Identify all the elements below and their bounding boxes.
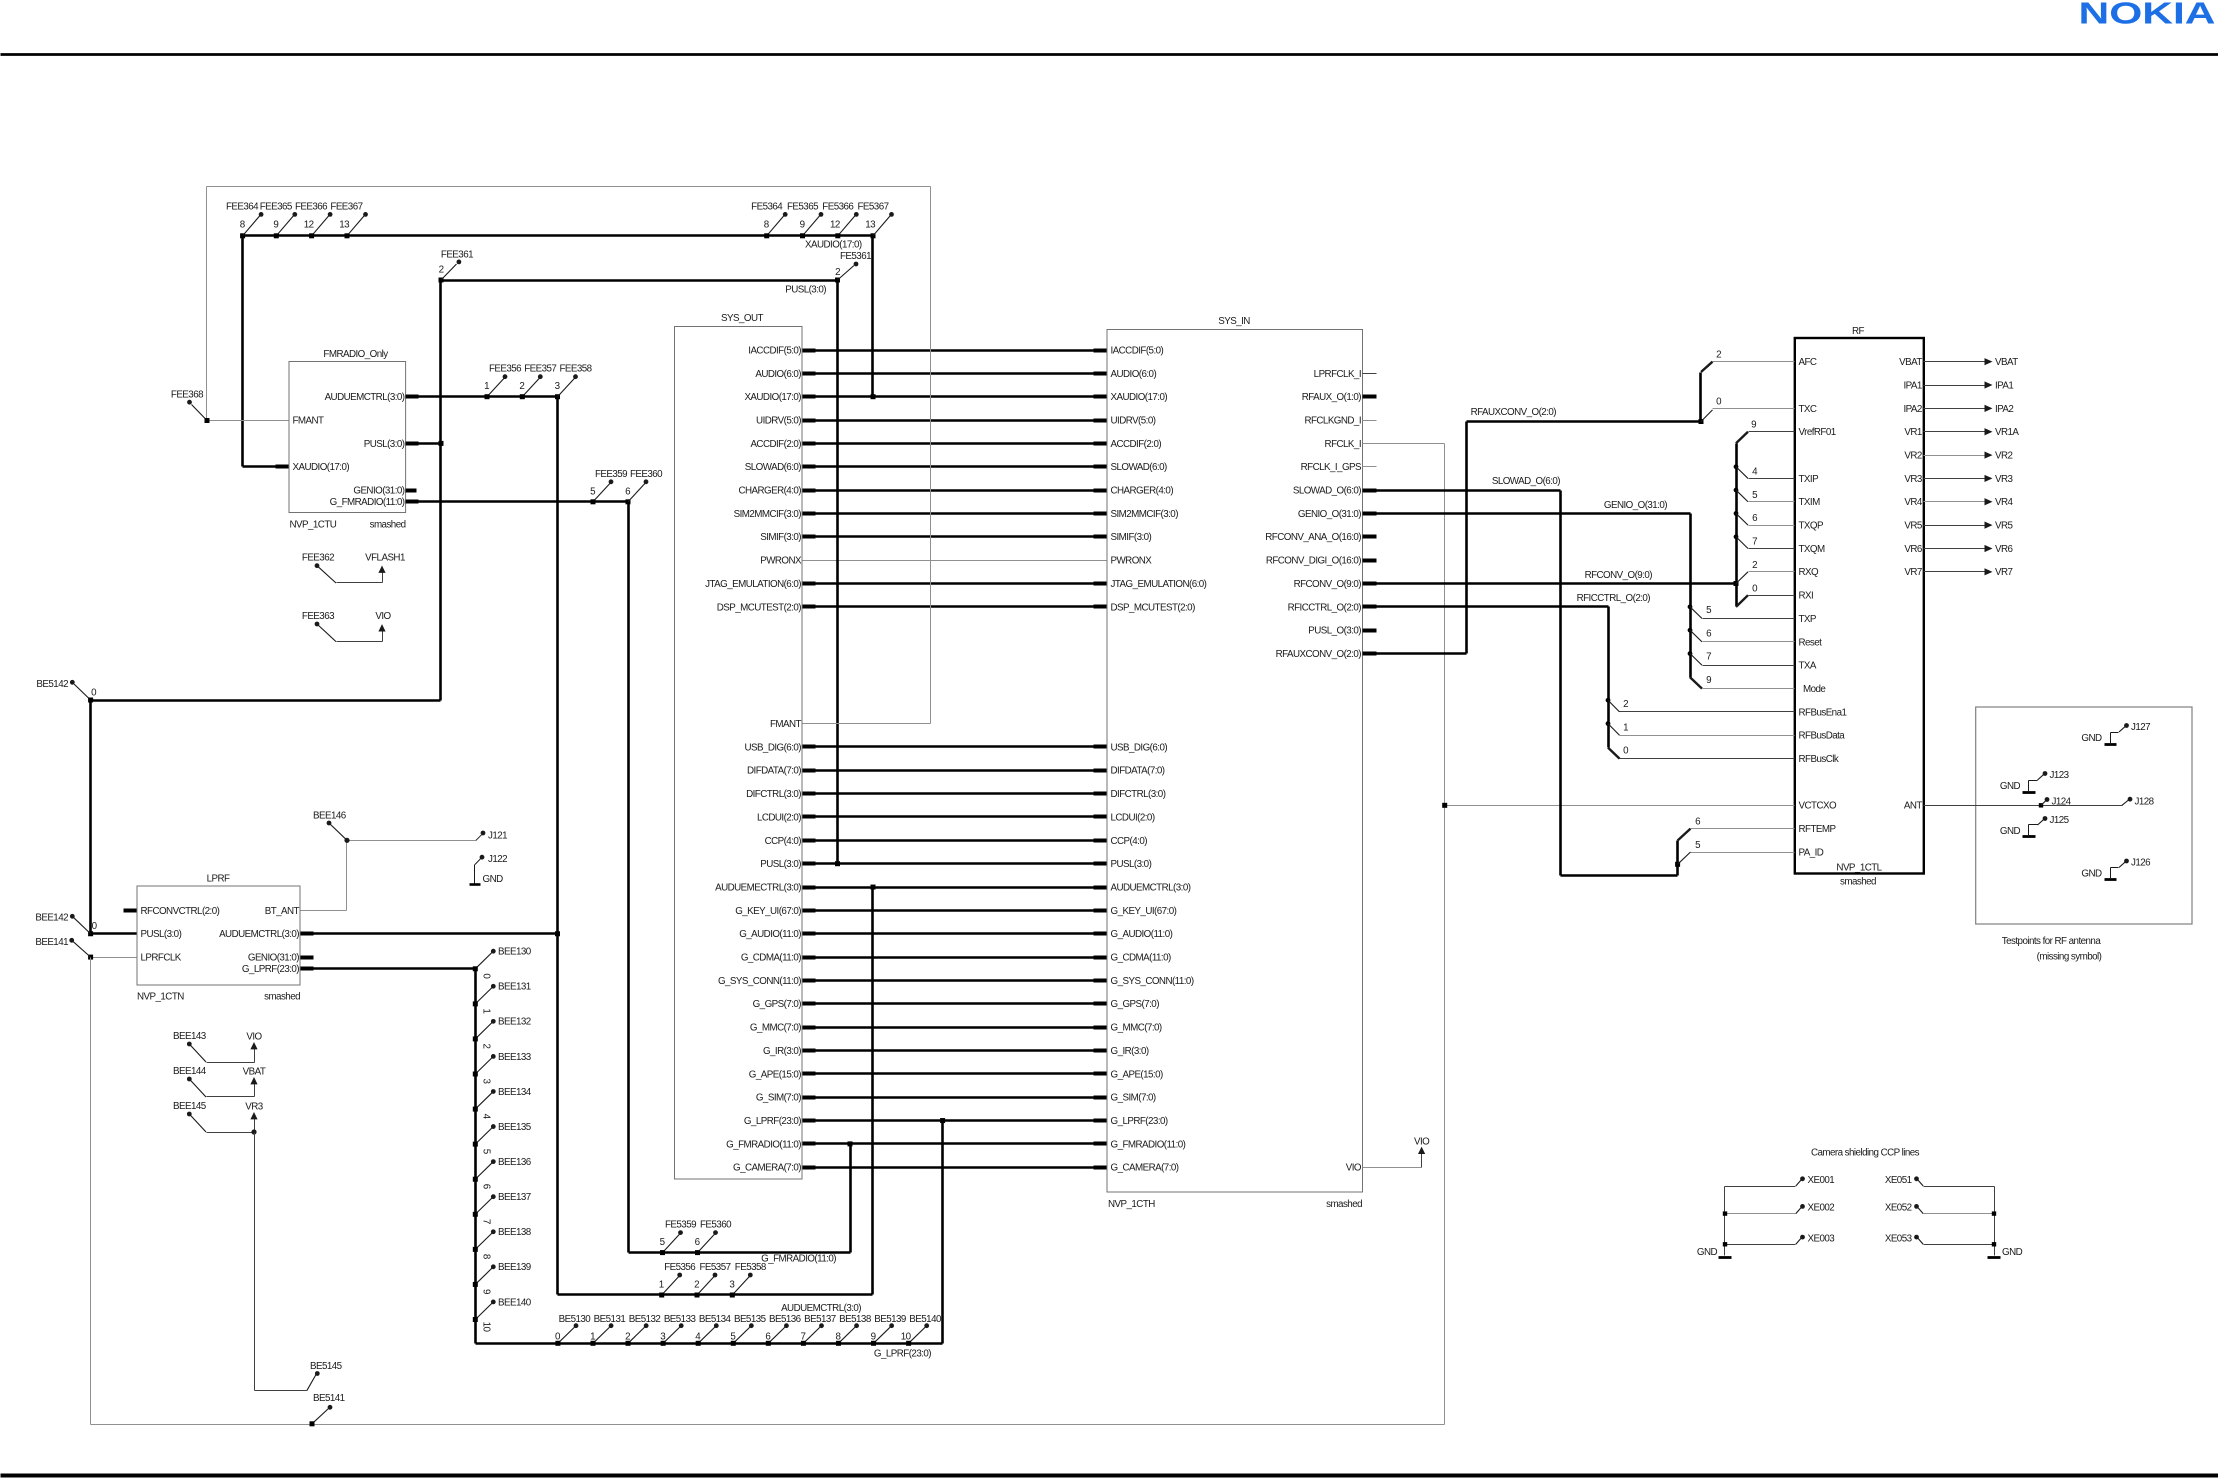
testpoint FEE362 <box>315 563 320 568</box>
svg-text:1: 1 <box>1623 722 1628 733</box>
wire VR3/BE5145 vertical <box>254 1133 256 1391</box>
svg-text:FE5359: FE5359 <box>665 1220 696 1231</box>
svg-text:LPRFCLK_I: LPRFCLK_I <box>1314 369 1361 380</box>
wire TXQM tap <box>1734 534 1739 539</box>
wire GENIO_O vertical <box>1689 514 1692 678</box>
svg-text:13: 13 <box>339 220 350 231</box>
wire bus SLOWAD(6:0) <box>803 465 1107 468</box>
testpoint FE5365 <box>803 215 821 235</box>
wire LPRFCLK LPRF pin <box>91 957 137 959</box>
svg-text:BEE144: BEE144 <box>173 1066 207 1077</box>
testpoint BE5141 <box>312 1409 329 1424</box>
svg-text:G_GPS(7:0): G_GPS(7:0) <box>1111 999 1160 1010</box>
svg-text:G_IR(3:0): G_IR(3:0) <box>1111 1046 1149 1057</box>
testpoint FE5359 <box>663 1233 681 1253</box>
junction AUDUEMCTRL at SYS row <box>871 885 876 890</box>
wire RFBusEna1 tap <box>1606 698 1611 703</box>
svg-text:FEE364: FEE364 <box>226 201 259 212</box>
testpoint XE002 <box>1800 1204 1805 1209</box>
svg-text:G_AUDIO(11:0): G_AUDIO(11:0) <box>1111 929 1173 940</box>
power arrow VR7 <box>1985 568 1993 575</box>
svg-text:FEE360: FEE360 <box>630 469 663 480</box>
wire GENIO_O from SYS_IN <box>1363 512 1691 515</box>
wire camera left rail <box>1724 1187 1726 1256</box>
wire RFTEMP tap <box>1678 829 1691 841</box>
svg-text:TXQM: TXQM <box>1799 544 1825 555</box>
junction <box>274 233 279 238</box>
junction <box>473 1247 478 1252</box>
svg-text:XAUDIO(17:0): XAUDIO(17:0) <box>805 240 862 251</box>
svg-text:10: 10 <box>481 1322 492 1333</box>
testpoint BEE139 <box>475 1268 492 1285</box>
svg-text:RFICCTRL_O(2:0): RFICCTRL_O(2:0) <box>1577 593 1651 604</box>
svg-text:BE5141: BE5141 <box>313 1393 345 1404</box>
svg-text:smashed: smashed <box>370 520 406 531</box>
junction PUSL at SYS_OUT row <box>835 861 840 866</box>
power arrow IPA2 <box>1985 405 1993 412</box>
svg-text:BEE136: BEE136 <box>498 1157 532 1168</box>
junction <box>626 1341 631 1346</box>
svg-text:USB_DIG(6:0): USB_DIG(6:0) <box>744 742 801 753</box>
wire VR3 output <box>1924 478 1985 480</box>
wire RXI tap <box>1736 595 1748 607</box>
wire RFAUXCONV_O horizontal to RF <box>1467 420 1701 423</box>
svg-text:ANT: ANT <box>1904 801 1923 812</box>
testpoint XE003 <box>1800 1235 1805 1240</box>
junction <box>836 1341 841 1346</box>
svg-text:BE5137: BE5137 <box>804 1314 836 1325</box>
testpoint BE5138 <box>838 1326 855 1343</box>
svg-text:LCDUI(2:0): LCDUI(2:0) <box>757 812 801 823</box>
stub SYS_IN RFCLK_I_GPS <box>1363 466 1377 468</box>
wire bus G_GPS(7:0) <box>803 1002 1107 1005</box>
wire RFCLK_I vertical <box>1444 444 1446 1425</box>
svg-text:BE5131: BE5131 <box>594 1314 626 1325</box>
svg-text:smashed: smashed <box>1840 877 1876 888</box>
svg-text:2: 2 <box>439 265 444 276</box>
wire VrefRF01 tap <box>1736 432 1748 444</box>
junction <box>661 1341 666 1346</box>
junction RFAUXCONV at RF taps <box>1699 419 1704 424</box>
ground GND camera right <box>1988 1256 2001 1259</box>
svg-text:RF: RF <box>1852 326 1865 337</box>
svg-text:VR3: VR3 <box>1904 474 1923 485</box>
wire AUDUEMCTRL bottom bus <box>558 1293 873 1296</box>
testpoint BE5139 <box>874 1326 891 1343</box>
stub FMRADIO AUDUEMCTRL <box>406 395 419 399</box>
stub SYS_IN RFCONV_DIGI_O <box>1363 559 1377 563</box>
testpoint FEE358 <box>558 377 576 397</box>
testpoint XE051 <box>1914 1176 1919 1181</box>
junction RFCONV_O <box>1734 581 1739 586</box>
svg-text:SIMIF(3:0): SIMIF(3:0) <box>1111 532 1152 543</box>
wire bus DIFCTRL(3:0) <box>803 792 1107 795</box>
title rule top <box>1 53 2218 56</box>
junction BE5141 <box>310 1421 315 1426</box>
svg-text:VR2: VR2 <box>1904 450 1922 461</box>
testpoint FEE361 <box>441 264 457 280</box>
testpoint J125 <box>2043 816 2048 821</box>
wire XE002 <box>1725 1213 1796 1215</box>
wire camera right rail <box>1994 1187 1996 1256</box>
svg-text:RFCLK_I: RFCLK_I <box>1325 439 1361 450</box>
svg-text:FE5356: FE5356 <box>664 1262 696 1273</box>
junction <box>801 1341 806 1346</box>
svg-text:RFCONV_DIGI_O(16:0): RFCONV_DIGI_O(16:0) <box>1266 556 1361 567</box>
wire G_LPRF vertical to SYS row <box>941 1121 944 1344</box>
svg-text:BT_ANT: BT_ANT <box>265 906 300 917</box>
svg-text:FEE363: FEE363 <box>302 611 335 622</box>
wire TXQP tap <box>1734 511 1739 516</box>
junction <box>309 233 314 238</box>
svg-text:G_SYS_CONN(11:0): G_SYS_CONN(11:0) <box>1111 976 1194 987</box>
wire bus G_APE(15:0) <box>803 1072 1107 1075</box>
wire SLOWAD_O bottom horizontal <box>1561 874 1678 877</box>
power arrow VBAT <box>1985 358 1993 365</box>
svg-text:BEE131: BEE131 <box>498 982 531 993</box>
testpoint BEE146 <box>329 823 347 840</box>
svg-text:FE5366: FE5366 <box>822 201 854 212</box>
testpoint FEE367 <box>347 215 365 235</box>
svg-text:FEE366: FEE366 <box>295 201 328 212</box>
svg-text:Camera shielding CCP lines: Camera shielding CCP lines <box>1811 1148 1920 1159</box>
svg-text:GENIO(31:0): GENIO(31:0) <box>353 486 404 497</box>
wire bus DIFDATA(7:0) <box>803 769 1107 772</box>
wire bus G_SIM(7:0) <box>803 1096 1107 1099</box>
svg-text:IPA1: IPA1 <box>1903 380 1921 391</box>
wire TXP tap <box>1688 604 1693 609</box>
testpoint FE5360 <box>698 1233 716 1253</box>
svg-text:CHARGER(4:0): CHARGER(4:0) <box>738 486 801 497</box>
svg-text:FEE368: FEE368 <box>171 390 204 401</box>
junction <box>871 1341 876 1346</box>
svg-text:LPRF: LPRF <box>207 874 230 885</box>
wire SLOWAD_O vertical <box>1559 491 1562 876</box>
ground GND J126 <box>2105 878 2117 881</box>
wire RFICCTRL_O vertical <box>1607 607 1610 748</box>
wire AUDUEMCTRL FMRADIO bus <box>406 395 558 398</box>
wire XE001 <box>1725 1186 1796 1188</box>
junction <box>766 1341 771 1346</box>
stub FMRADIO XAUDIO <box>276 465 289 469</box>
svg-text:PUSL(3:0): PUSL(3:0) <box>1111 859 1152 870</box>
svg-text:GND: GND <box>2081 733 2102 744</box>
wire RFAUXCONV_O vertical <box>1465 422 1468 654</box>
junction <box>696 1341 701 1346</box>
svg-text:AUDIO(6:0): AUDIO(6:0) <box>1111 369 1157 380</box>
junction <box>1992 1211 1996 1215</box>
svg-text:LCDUI(2:0): LCDUI(2:0) <box>1111 812 1155 823</box>
svg-text:SYS_OUT: SYS_OUT <box>721 313 763 324</box>
power arrow VR5 <box>1985 522 1993 529</box>
svg-text:2: 2 <box>694 1280 699 1291</box>
svg-text:G_CDMA(11:0): G_CDMA(11:0) <box>741 953 801 964</box>
wire bus PUSL(3:0) <box>803 862 1107 865</box>
svg-text:PWRONX: PWRONX <box>1111 556 1153 567</box>
wire bus UIDRV(5:0) <box>803 419 1107 422</box>
testpoint BE5142 <box>74 684 91 700</box>
block LPRF (NVP_1CTN) <box>137 886 300 985</box>
junction LPRFCLK <box>88 955 93 960</box>
junction BEE146 <box>344 838 349 843</box>
wire XAUDIO(17:0) top bus <box>243 234 873 237</box>
svg-text:FE5361: FE5361 <box>840 251 871 262</box>
svg-text:SLOWAD(6:0): SLOWAD(6:0) <box>1111 462 1167 473</box>
svg-text:VR6: VR6 <box>1995 544 2014 555</box>
testpoint BEE144 <box>187 1077 192 1082</box>
svg-text:GND: GND <box>2000 826 2021 837</box>
testpoint J126 <box>2124 859 2129 864</box>
svg-text:BEE132: BEE132 <box>498 1017 531 1028</box>
svg-text:Reset: Reset <box>1799 637 1823 648</box>
testpoint J127 <box>2124 723 2129 728</box>
wire FMANT loop left vertical <box>206 187 208 421</box>
testpoint FEE365 <box>276 215 294 235</box>
svg-text:XE053: XE053 <box>1885 1233 1913 1244</box>
testpoint FEE359 <box>593 482 611 502</box>
testpoint BE5140 <box>909 1326 926 1343</box>
svg-text:VR3: VR3 <box>1995 474 2014 485</box>
wire XE003 <box>1725 1244 1796 1246</box>
wire G_LPRF bottom bus <box>476 1342 943 1345</box>
block SYS_IN (NVP_1CTH) <box>1107 330 1363 1193</box>
testpoint XE052 <box>1914 1204 1919 1209</box>
wire bus G_CAMERA(7:0) <box>803 1166 1107 1169</box>
svg-text:DIFDATA(7:0): DIFDATA(7:0) <box>1111 766 1165 777</box>
svg-text:TXP: TXP <box>1799 614 1817 625</box>
svg-text:RFBusData: RFBusData <box>1799 731 1846 742</box>
wire VR5 output <box>1924 525 1985 527</box>
power arrow VIO <box>337 641 383 643</box>
svg-text:BEE142: BEE142 <box>35 913 68 924</box>
svg-text:BE5130: BE5130 <box>559 1314 592 1325</box>
svg-text:DIFCTRL(3:0): DIFCTRL(3:0) <box>1111 789 1166 800</box>
svg-text:BE5136: BE5136 <box>769 1314 802 1325</box>
svg-text:VrefRF01: VrefRF01 <box>1799 427 1836 438</box>
svg-text:2: 2 <box>1752 560 1757 571</box>
svg-text:SIM2MMCIF(3:0): SIM2MMCIF(3:0) <box>1111 509 1179 520</box>
testpoint BEE132 <box>475 1022 492 1039</box>
svg-text:FEE362: FEE362 <box>302 553 334 564</box>
svg-text:G_LPRF(23:0): G_LPRF(23:0) <box>744 1116 801 1127</box>
svg-text:G_KEY_UI(67:0): G_KEY_UI(67:0) <box>1111 906 1177 917</box>
svg-text:NVP_1CTU: NVP_1CTU <box>290 520 337 531</box>
svg-text:GND: GND <box>2081 869 2102 880</box>
junction <box>1723 1211 1727 1215</box>
block FMRADIO_Only (NVP_1CTU) <box>289 362 406 513</box>
junction PUSL FMRADIO <box>439 441 444 446</box>
junction <box>473 966 478 971</box>
svg-text:FEE356: FEE356 <box>489 364 522 375</box>
svg-text:RXQ: RXQ <box>1799 567 1820 578</box>
power arrow VR4 <box>1985 498 1993 505</box>
svg-text:G_IR(3:0): G_IR(3:0) <box>763 1046 801 1057</box>
wire VR4 output <box>1924 501 1985 503</box>
stub FMRADIO PUSL <box>406 442 419 446</box>
junction BE5142 corner <box>88 698 93 703</box>
wire bus IACCDIF(5:0) <box>803 349 1107 352</box>
testpoint J128 <box>2122 800 2129 805</box>
svg-text:9: 9 <box>273 220 278 231</box>
stub SYS_IN RFCONV_ANA_O <box>1363 535 1377 539</box>
svg-text:9: 9 <box>1706 675 1711 686</box>
svg-text:7: 7 <box>481 1219 492 1224</box>
testpoint BE5134 <box>698 1326 715 1343</box>
svg-text:G_LPRF(23:0): G_LPRF(23:0) <box>874 1349 931 1360</box>
testpoint BE5132 <box>628 1326 645 1343</box>
svg-text:ACCDIF(2:0): ACCDIF(2:0) <box>750 439 801 450</box>
wire RXQ tap <box>1736 572 1748 584</box>
junction <box>473 1107 478 1112</box>
wire bus DSP_MCUTEST(2:0) <box>803 605 1107 608</box>
wire G_LPRF vertical chain <box>474 969 477 1344</box>
wire bus G_SYS_CONN(11:0) <box>803 979 1107 982</box>
testpoint BE5133 <box>663 1326 680 1343</box>
stub FMRADIO GENIO (unconnected) <box>406 489 417 493</box>
block SYS_OUT <box>675 327 803 1180</box>
svg-text:7: 7 <box>1706 652 1711 663</box>
junction <box>345 233 350 238</box>
wire RFBusData tap <box>1606 721 1611 726</box>
svg-text:J123: J123 <box>2050 770 2070 781</box>
svg-text:FEE359: FEE359 <box>595 469 627 480</box>
testpoint FE5358 <box>732 1276 750 1296</box>
svg-text:2: 2 <box>1623 699 1628 710</box>
testpoint J123 <box>2043 771 2048 776</box>
wire bus G_FMRADIO(11:0) <box>803 1142 1107 1145</box>
svg-text:FMANT: FMANT <box>770 719 802 730</box>
wire bus G_CDMA(11:0) <box>803 956 1107 959</box>
svg-text:J125: J125 <box>2050 815 2070 826</box>
wire VR2 output <box>1924 455 1985 457</box>
svg-text:AFC: AFC <box>1799 357 1817 368</box>
wire FMANT to SYS_OUT <box>803 723 931 725</box>
junction <box>1723 1242 1727 1246</box>
svg-text:G_APE(15:0): G_APE(15:0) <box>1111 1069 1164 1080</box>
svg-text:PUSL_O(3:0): PUSL_O(3:0) <box>1308 626 1361 637</box>
svg-text:BEE133: BEE133 <box>498 1052 532 1063</box>
svg-text:VIO: VIO <box>1414 1136 1430 1147</box>
svg-text:BEE146: BEE146 <box>313 811 347 822</box>
svg-text:BE5135: BE5135 <box>734 1314 767 1325</box>
svg-text:RFCONVCTRL(2:0): RFCONVCTRL(2:0) <box>141 906 220 917</box>
svg-text:7: 7 <box>1752 536 1757 547</box>
testpoint FEE363 <box>315 622 320 627</box>
wire bus CHARGER(4:0) <box>803 489 1107 492</box>
testpoint FE5367 <box>873 215 891 235</box>
svg-text:NVP_1CTN: NVP_1CTN <box>137 992 184 1003</box>
svg-text:FE5367: FE5367 <box>857 201 888 212</box>
svg-text:JTAG_EMULATION(6:0): JTAG_EMULATION(6:0) <box>705 579 801 590</box>
svg-text:J122: J122 <box>488 854 507 865</box>
svg-text:RFTEMP: RFTEMP <box>1799 824 1837 835</box>
svg-text:VR5: VR5 <box>1995 521 2014 532</box>
testpoint FEE356 <box>487 377 505 397</box>
svg-text:CCP(4:0): CCP(4:0) <box>1111 836 1148 847</box>
svg-text:RFAUX_O(1:0): RFAUX_O(1:0) <box>1302 392 1362 403</box>
power arrow VR1A <box>1985 428 1993 435</box>
wire PA_ID tap <box>1678 852 1691 864</box>
power arrow VBAT <box>207 1096 255 1098</box>
svg-text:FMRADIO_Only: FMRADIO_Only <box>323 349 388 360</box>
junction FEE368 corner <box>205 418 210 423</box>
testpoint BEE143 <box>187 1042 192 1047</box>
stub SYS_IN PUSL_O <box>1363 629 1377 633</box>
junction <box>800 233 805 238</box>
wire G_LPRF LPRF bus <box>301 967 476 970</box>
svg-text:BEE143: BEE143 <box>173 1031 207 1042</box>
svg-text:G_LPRF(23:0): G_LPRF(23:0) <box>1111 1116 1168 1127</box>
svg-text:G_SIM(7:0): G_SIM(7:0) <box>756 1093 801 1104</box>
svg-text:G_FMRADIO(11:0): G_FMRADIO(11:0) <box>726 1139 801 1150</box>
wire G_FMRADIO vertical to SYS row <box>849 1144 852 1253</box>
svg-text:G_MMC(7:0): G_MMC(7:0) <box>1111 1023 1162 1034</box>
svg-text:XE051: XE051 <box>1885 1175 1912 1186</box>
wire XE053 <box>1924 1244 1995 1246</box>
junction <box>906 1341 911 1346</box>
svg-text:BEE138: BEE138 <box>498 1227 532 1238</box>
svg-text:AUDUEMECTRL(3:0): AUDUEMECTRL(3:0) <box>715 882 801 893</box>
svg-text:AUDIO(6:0): AUDIO(6:0) <box>755 369 801 380</box>
svg-text:TXQP: TXQP <box>1799 521 1824 532</box>
wire VR7 output <box>1924 571 1985 573</box>
wire PUSL FMRADIO pin <box>406 442 441 445</box>
svg-text:SYS_IN: SYS_IN <box>1218 316 1250 327</box>
junction <box>659 1293 664 1298</box>
svg-text:VR3: VR3 <box>245 1101 264 1112</box>
svg-text:VFLASH1: VFLASH1 <box>365 553 405 564</box>
power arrow VR2 <box>1985 451 1993 458</box>
wire XE051 <box>1924 1186 1995 1188</box>
wire AFC <box>1713 361 1795 363</box>
junction SLOWAD_O riser <box>1675 862 1680 867</box>
svg-text:ACCDIF(2:0): ACCDIF(2:0) <box>1111 439 1162 450</box>
svg-text:RFICCTRL_O(2:0): RFICCTRL_O(2:0) <box>1288 602 1362 613</box>
svg-text:BE5138: BE5138 <box>839 1314 872 1325</box>
svg-text:J124: J124 <box>2052 796 2072 807</box>
svg-text:RFAUXCONV_O(2:0): RFAUXCONV_O(2:0) <box>1276 649 1362 660</box>
junction <box>520 394 525 399</box>
svg-text:BE5133: BE5133 <box>664 1314 697 1325</box>
svg-text:VBAT: VBAT <box>1995 357 2018 368</box>
junction G_FMRADIO at SYS row <box>848 1141 853 1146</box>
wire XAUDIO vertical to FMRADIO <box>241 236 244 467</box>
wire bus G_IR(3:0) <box>803 1049 1107 1052</box>
svg-text:2: 2 <box>519 381 524 392</box>
svg-text:BE5145: BE5145 <box>310 1361 343 1372</box>
junction <box>730 1293 735 1298</box>
svg-text:RFCONV_O(9:0): RFCONV_O(9:0) <box>1294 579 1362 590</box>
testpoint FE5364 <box>767 215 785 235</box>
wire bus AUDUEMECTRL(3:0) <box>803 886 1107 889</box>
svg-text:NOKIA: NOKIA <box>2079 0 2216 31</box>
wire IPA1 output <box>1924 385 1985 387</box>
svg-text:G_FMRADIO(11:0): G_FMRADIO(11:0) <box>761 1254 836 1265</box>
box Testpoints for RF antenna <box>1976 707 2192 924</box>
svg-text:Testpoints for RF antenna: Testpoints for RF antenna <box>2002 936 2102 947</box>
svg-text:GENIO(31:0): GENIO(31:0) <box>248 953 299 964</box>
ground GND J122 <box>475 857 482 864</box>
svg-text:VR1A: VR1A <box>1995 427 2019 438</box>
stub SYS_IN RFAUX_O <box>1363 395 1377 399</box>
svg-text:smashed: smashed <box>1326 1199 1362 1210</box>
wire bus CCP(4:0) <box>803 839 1107 842</box>
svg-text:G_APE(15:0): G_APE(15:0) <box>749 1069 802 1080</box>
testpoint FE5357 <box>697 1276 715 1296</box>
wire bus USB_DIG(6:0) <box>803 745 1107 748</box>
svg-text:AUDUEMCTRL(3:0): AUDUEMCTRL(3:0) <box>219 929 299 940</box>
junction <box>555 1341 560 1346</box>
